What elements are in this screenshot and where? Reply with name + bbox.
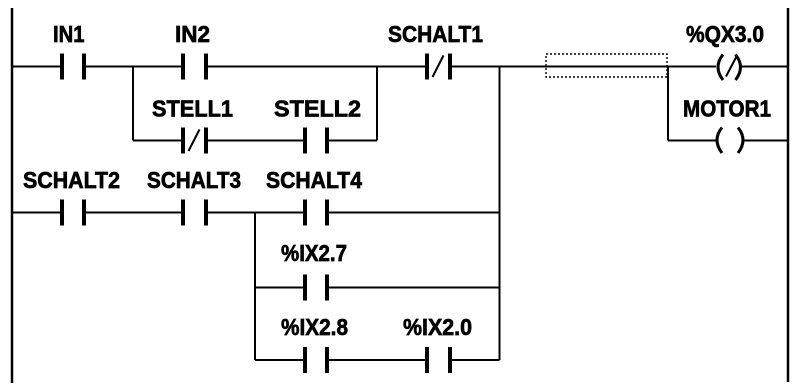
contact %IX2.7 bbox=[305, 275, 327, 301]
svg-text:SCHALT4: SCHALT4 bbox=[266, 167, 362, 193]
node B vertical: rung2 up to rung1 bbox=[499, 67, 501, 361]
coil %QX3.0 negated bbox=[718, 55, 741, 81]
wire SCHALT2 to SCHALT3 bbox=[84, 212, 183, 214]
svg-text:STELL1: STELL1 bbox=[152, 96, 233, 122]
svg-text:SCHALT2: SCHALT2 bbox=[23, 167, 120, 193]
wire rung1: rail to IN1 bbox=[12, 66, 62, 68]
svg-text:%IX2.8: %IX2.8 bbox=[281, 314, 348, 340]
left power rail bbox=[11, 8, 14, 383]
wire IN2 to SCHALT1 bbox=[206, 66, 427, 68]
contact SCHALT4 bbox=[305, 200, 327, 226]
svg-text:%IX2.7: %IX2.7 bbox=[281, 240, 347, 266]
contact STELL2 bbox=[305, 128, 327, 154]
svg-text:IN2: IN2 bbox=[175, 21, 210, 47]
contact %IX2.8 bbox=[305, 347, 327, 373]
wire STELL2 to rejoin bbox=[327, 140, 377, 142]
coil MOTOR1 bbox=[717, 128, 743, 154]
contact SCHALT3 bbox=[183, 200, 206, 226]
wire IX2.7 row to node B bbox=[327, 287, 500, 289]
right power rail bbox=[787, 8, 790, 382]
wire MOTOR branch to coil bbox=[668, 140, 717, 142]
parallel branch vertical at node C bbox=[254, 213, 256, 361]
wire rung2: rail to SCHALT2 bbox=[12, 212, 62, 214]
contact STELL1 negated bbox=[183, 128, 206, 154]
svg-text:%IX2.0: %IX2.0 bbox=[403, 314, 472, 340]
wire coil MOTOR1 to right rail bbox=[743, 140, 788, 142]
wire SCHALT3 to SCHALT4 bbox=[206, 212, 305, 214]
wire STELL row: branch to STELL1 bbox=[133, 140, 183, 142]
wire IN1 to IN2 bbox=[84, 66, 183, 68]
wire IX2.8 to IX2.0 bbox=[327, 359, 427, 361]
svg-text:IN1: IN1 bbox=[53, 21, 85, 47]
wire IX2.0 to node B bbox=[450, 359, 500, 361]
svg-text:MOTOR1: MOTOR1 bbox=[683, 96, 771, 122]
wire IX2.8 row: branch to contact bbox=[255, 359, 305, 361]
wire STELL1 to STELL2 bbox=[206, 140, 305, 142]
wire coil QX3.0 to right rail bbox=[742, 66, 788, 68]
node A vertical: branch down to STELL row bbox=[132, 67, 134, 141]
svg-text:SCHALT1: SCHALT1 bbox=[388, 21, 483, 47]
contact %IX2.0 bbox=[427, 347, 450, 373]
contact SCHALT2 bbox=[62, 200, 84, 226]
svg-text:SCHALT3: SCHALT3 bbox=[147, 167, 241, 193]
MOTOR branch vertical bbox=[667, 67, 669, 141]
wire IX2.7 row: branch to contact bbox=[255, 287, 305, 289]
wire SCHALT4 to node B bbox=[327, 212, 500, 214]
contact IN2 bbox=[183, 54, 206, 80]
contact IN1 bbox=[62, 54, 84, 80]
selection box (dotted) bbox=[546, 54, 667, 77]
svg-text:%QX3.0: %QX3.0 bbox=[686, 21, 764, 47]
contact SCHALT1 negated bbox=[427, 54, 450, 80]
svg-text:STELL2: STELL2 bbox=[274, 96, 361, 122]
wire SCHALT1 to coil QX3.0 bbox=[450, 66, 716, 68]
STELL branch rejoin vertical bbox=[376, 67, 378, 141]
